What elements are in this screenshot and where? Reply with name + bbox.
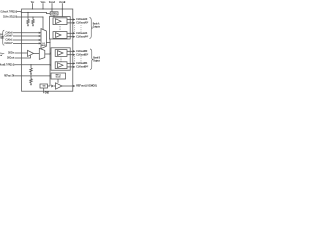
svg-text:2:1: 2:1 bbox=[42, 43, 45, 45]
svg-text:REFout_EN: REFout_EN bbox=[4, 74, 14, 78]
svg-text:VccoB: VccoB bbox=[59, 0, 66, 4]
svg-text:Vcco: Vcco bbox=[41, 0, 46, 4]
svg-text:CLKoutB0: CLKoutB0 bbox=[76, 49, 87, 53]
svg-text:Bank B: Bank B bbox=[93, 55, 100, 59]
svg-text:CLKoutA0*: CLKoutA0* bbox=[76, 21, 89, 25]
svg-text:REFout (LVCMOS): REFout (LVCMOS) bbox=[76, 84, 97, 88]
svg-text:VccoA: VccoA bbox=[49, 0, 56, 4]
svg-text:CLKoutA0: CLKoutA0 bbox=[76, 17, 87, 21]
svg-text:CLKoutB_TYPE[1:0]: CLKoutB_TYPE[1:0] bbox=[0, 62, 14, 66]
svg-text:CLKoutB4*: CLKoutB4* bbox=[76, 65, 89, 69]
svg-text:CLKoutA_TYPE[1:0]: CLKoutA_TYPE[1:0] bbox=[1, 9, 18, 13]
svg-text:CLKin_SEL[1:0]: CLKin_SEL[1:0] bbox=[3, 15, 17, 19]
svg-text:Crys-: Crys- bbox=[0, 53, 5, 55]
svg-text:CLKin1: CLKin1 bbox=[6, 38, 13, 42]
svg-text:OSCout: OSCout bbox=[7, 56, 14, 60]
svg-text:CLKin1*: CLKin1* bbox=[5, 41, 14, 45]
svg-text:CLKin0: CLKin0 bbox=[6, 30, 13, 34]
svg-text:Vcc: Vcc bbox=[31, 0, 35, 4]
svg-text:CLKoutA4: CLKoutA4 bbox=[76, 31, 87, 35]
svg-text:GND: GND bbox=[45, 92, 49, 95]
svg-text:OSCin: OSCin bbox=[8, 51, 14, 55]
svg-text:Clock: Clock bbox=[0, 36, 4, 38]
svg-text:CLKoutB4: CLKoutB4 bbox=[76, 61, 87, 65]
svg-text:Bank A: Bank A bbox=[93, 21, 100, 25]
